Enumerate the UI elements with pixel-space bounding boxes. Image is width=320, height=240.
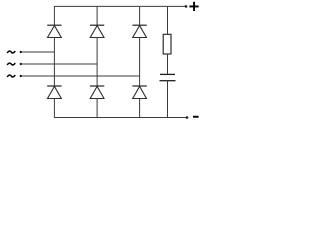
- node + terminal dot: [185, 5, 188, 8]
- diode D2 (top row, phase B to +): [90, 25, 104, 37]
- wire top branch 2: [96, 6, 98, 25]
- diode D3 (top row, phase C to +): [132, 25, 146, 37]
- label + (positive output): [189, 2, 198, 11]
- wire top branch 3: [139, 6, 141, 25]
- diode D1 (top row, phase A to +): [47, 25, 61, 37]
- wire phase A: [22, 51, 55, 53]
- wire resistor top lead: [167, 6, 169, 34]
- wire phase C: [22, 75, 140, 77]
- node phase B terminal: [20, 63, 22, 65]
- wire bottom rail (- bus): [54, 117, 187, 119]
- node phase A terminal: [20, 51, 22, 53]
- wire capacitor bottom lead: [167, 81, 169, 118]
- wire mid branch 1: [53, 38, 55, 87]
- node - terminal dot: [186, 116, 189, 119]
- wire resistor to capacitor: [167, 54, 169, 74]
- label - (negative output): [193, 116, 199, 118]
- wire top rail (+ bus): [54, 5, 186, 7]
- resistor R1: [163, 34, 171, 54]
- diode D6 (bottom row, - to phase C): [132, 86, 146, 99]
- label ~ phase B: [7, 63, 15, 65]
- diode D4 (bottom row, - to phase A): [47, 86, 61, 99]
- wire mid branch 3: [139, 38, 141, 87]
- wire top branch 1: [53, 6, 55, 25]
- wire bottom branch 1: [53, 99, 55, 119]
- capacitor C1: [160, 74, 176, 80]
- diode D5 (bottom row, - to phase B): [90, 86, 104, 99]
- node phase C terminal: [20, 75, 22, 77]
- wire bottom branch 3: [139, 99, 141, 119]
- label ~ phase A: [7, 51, 15, 53]
- wire bottom branch 2: [96, 99, 98, 119]
- wire phase B: [22, 63, 98, 65]
- label ~ phase C: [7, 75, 15, 77]
- wire mid branch 2: [96, 38, 98, 87]
